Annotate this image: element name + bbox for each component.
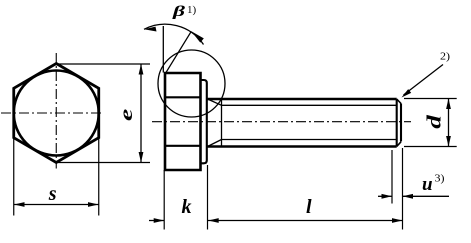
chamfer diagonal top [397,99,401,104]
u dimension line left part [378,195,392,197]
svg-text:d: d [424,114,446,129]
beta angle arc [144,24,204,44]
svg-text:k: k [182,196,192,218]
d extension line bottom [404,146,457,148]
beta reference vertical line [162,26,164,73]
l dimension line [208,220,403,222]
d extension line top [404,98,457,100]
svg-text:1): 1) [187,4,197,16]
washer face under head [201,80,207,163]
k extension line left [163,170,165,230]
s dimension line [14,204,99,206]
e dimension line [140,64,142,163]
svg-text:e: e [116,109,136,121]
end face [400,104,402,142]
thread minor line bottom [222,139,397,141]
thread start line [221,99,223,147]
beta arc arrow right [191,31,204,42]
thread runout diagonal top [208,99,222,105]
chamfer diagonal bottom [397,142,401,147]
beta arc arrow left [144,27,157,32]
svg-text:u: u [422,174,433,195]
e extension line top [57,63,150,65]
k dimension line [149,220,164,222]
u dimension line right part [403,195,450,197]
horizontal centerline [1,112,103,114]
svg-text:s: s [48,183,57,205]
thread minor line top [222,104,397,106]
svg-text:2): 2) [440,52,451,63]
s extension line right [98,138,100,216]
end chamfer line [396,99,398,147]
head facet line lower [165,145,201,147]
u extension line left [391,150,393,204]
head outline [165,73,201,170]
leader 2) [404,65,444,96]
thread runout diagonal bottom [208,140,222,147]
u / l shared extension line right [402,148,404,230]
s extension line left [13,138,15,216]
svg-text:3): 3) [435,174,445,185]
bolt centerline [152,121,411,123]
shank top edge [207,98,397,101]
inscribed chamfer circle [14,71,99,156]
d dimension line [448,99,450,147]
e extension line bottom [57,162,150,164]
shank bottom edge [207,145,397,148]
head facet line upper [165,96,201,98]
k / l shared extension line [207,165,209,230]
svg-text:l: l [306,196,312,218]
hexagon head outline [14,64,99,163]
svg-text:β: β [171,4,185,20]
beta chamfer angle line [166,31,192,73]
detail reference circle [158,50,225,117]
vertical centerline [55,53,57,169]
